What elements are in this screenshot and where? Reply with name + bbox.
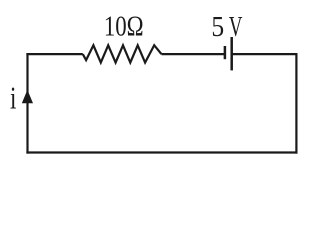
- wire top-left segment: [26, 53, 82, 55]
- battery V1 negative plate (short): [224, 46, 227, 59]
- current arrow (direction of i): [22, 90, 33, 103]
- wire between resistor and battery: [161, 53, 225, 55]
- svg-text:i: i: [10, 81, 17, 117]
- wire top-right segment: [232, 53, 298, 55]
- battery V1 positive plate (long): [230, 37, 233, 70]
- svg-text:10Ω: 10Ω: [104, 10, 144, 42]
- svg-text:5: 5: [211, 11, 224, 43]
- wire right side: [295, 53, 297, 154]
- resistor R1 (10 ohm): [83, 45, 162, 62]
- svg-text:V: V: [229, 13, 243, 44]
- wire bottom side: [26, 151, 297, 153]
- wire left side: [26, 53, 28, 154]
